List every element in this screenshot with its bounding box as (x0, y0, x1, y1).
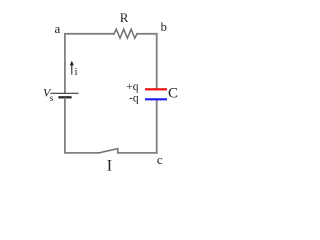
svg-text:+q: +q (126, 81, 138, 93)
svg-text:R: R (120, 10, 129, 25)
svg-text:-q: -q (129, 92, 139, 104)
svg-text:C: C (168, 85, 178, 101)
svg-text:c: c (157, 152, 163, 167)
svg-text:s: s (50, 94, 54, 104)
svg-text:b: b (161, 20, 167, 34)
svg-text:I: I (107, 158, 112, 175)
svg-text:i: i (75, 66, 78, 78)
svg-text:a: a (55, 21, 61, 36)
